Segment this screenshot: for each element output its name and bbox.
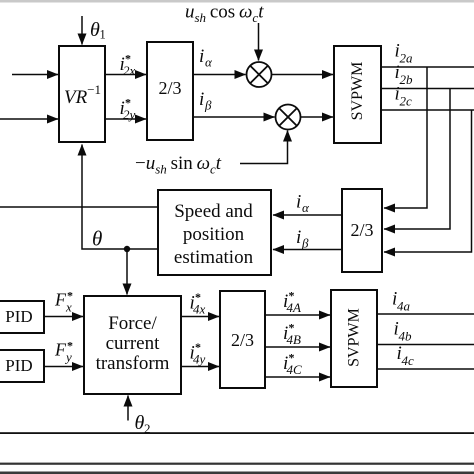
svg-text:current: current (106, 333, 161, 354)
wire i2y* (105, 118, 146, 120)
svg-text:x: x (65, 300, 72, 315)
svg-text:2/3: 2/3 (231, 330, 254, 350)
svg-text:2a: 2a (400, 51, 414, 66)
block 2/3 bottom (220, 291, 265, 388)
svg-text:2b: 2b (400, 72, 414, 87)
bottom page strip (0, 472, 474, 474)
svg-text:2/3: 2/3 (350, 220, 373, 240)
svg-text:i: i (199, 89, 204, 110)
label i_alpha feedback (296, 192, 310, 216)
label theta2 (135, 412, 151, 436)
wire i4y* (181, 366, 219, 368)
wire i2a (381, 66, 474, 68)
top page rule (0, 0, 474, 3)
svg-text:PID: PID (5, 356, 32, 375)
page rule below caption (0, 463, 474, 465)
svg-text:4b: 4b (399, 329, 413, 344)
wire theta2 up into force block (127, 396, 129, 421)
wire i4B* (265, 346, 330, 348)
wire i4a (377, 313, 474, 315)
svg-text:position: position (183, 224, 245, 245)
wire input 1 (12, 74, 58, 76)
svg-text:α: α (302, 200, 310, 215)
wire i_beta feedback (273, 249, 342, 251)
svg-text:1: 1 (100, 28, 106, 42)
block 2/3 feedback (342, 189, 382, 272)
wire M1 to SVPWM (272, 74, 334, 76)
wire feedback tap c (384, 110, 472, 252)
wire i4x* (181, 316, 219, 318)
svg-text:4y: 4y (193, 352, 206, 367)
wire feedback tap a (384, 67, 427, 208)
label i4b (394, 319, 413, 344)
label i2b (395, 62, 414, 87)
svg-text:β: β (204, 98, 212, 113)
label i4A* (283, 289, 301, 316)
block force current transform (84, 296, 181, 394)
block VR^-1 (59, 46, 105, 142)
label i_beta feedback (296, 227, 309, 251)
svg-text:β: β (301, 236, 309, 251)
svg-text:Force/: Force/ (108, 313, 157, 334)
svg-text:2y: 2y (123, 107, 136, 122)
label i4C* (283, 351, 302, 378)
label i2a (395, 41, 414, 66)
svg-text:i: i (199, 46, 204, 67)
svg-text:transform: transform (96, 353, 170, 374)
wire i_beta to M2 (193, 116, 275, 118)
wire i2b (381, 88, 474, 90)
svg-text:4x: 4x (193, 302, 206, 317)
svg-text:θ: θ (90, 19, 100, 41)
block SVPWM top (334, 46, 381, 143)
label i_alpha top (199, 46, 213, 70)
svg-text:θ: θ (92, 227, 102, 251)
svg-text:4a: 4a (397, 299, 411, 314)
label i4c (397, 343, 415, 368)
page rule above caption (0, 432, 474, 434)
wire i4b (377, 344, 474, 346)
wire feedback tap b (384, 89, 450, 230)
svg-text:estimation: estimation (174, 247, 254, 268)
block PID1 (0, 301, 44, 333)
wire i_alpha to M1 (193, 74, 246, 76)
label i4B* (283, 321, 301, 348)
wire -ush-sin to M2 (240, 131, 288, 164)
svg-text:4A: 4A (287, 300, 302, 315)
block 2/3 top (147, 42, 193, 140)
label Fx* (54, 289, 73, 315)
wire M2 to SVPWM (301, 116, 334, 118)
label i_beta top (199, 89, 212, 113)
svg-text:SVPWM: SVPWM (349, 62, 366, 121)
wire theta down to force block (126, 249, 128, 295)
wire Fx* (44, 316, 83, 318)
wire theta feedback to VR1 (82, 145, 158, 250)
svg-text:y: y (64, 350, 72, 365)
multiplier M1 (247, 62, 272, 87)
svg-text:i: i (296, 192, 301, 213)
block speed position estimation (158, 190, 271, 275)
label i4a (392, 289, 411, 314)
svg-text:2c: 2c (400, 94, 413, 109)
svg-text:4C: 4C (287, 362, 303, 377)
wire i2c (381, 109, 474, 111)
junction theta node (124, 246, 130, 252)
wire i_alpha feedback (273, 214, 342, 216)
label i4y* (190, 340, 206, 367)
svg-text:2x: 2x (123, 63, 136, 78)
wire i4C* (265, 376, 330, 378)
label theta1 (90, 19, 106, 42)
wire i4c (377, 368, 474, 370)
block SVPWM bottom (331, 290, 377, 387)
label i2y* (120, 96, 136, 123)
wire ush-cos down to M1 (258, 23, 260, 61)
svg-text:4B: 4B (287, 332, 302, 347)
wire speed output left (0, 206, 158, 208)
svg-text:Speed and: Speed and (174, 201, 253, 222)
svg-text:i: i (296, 227, 301, 248)
label i4x* (190, 290, 206, 317)
wire i4A* (265, 314, 330, 316)
block PID2 (0, 350, 44, 382)
label i2c (395, 84, 413, 109)
svg-text:θ: θ (135, 412, 145, 434)
svg-text:α: α (205, 55, 213, 70)
label Fy* (54, 339, 73, 365)
label i2x* (120, 52, 136, 79)
svg-text:4c: 4c (402, 353, 415, 368)
svg-text:−ush sin ωct: −ush sin ωct (135, 153, 222, 177)
multiplier M2 (276, 105, 301, 130)
svg-text:2/3: 2/3 (158, 78, 181, 98)
svg-text:PID: PID (5, 307, 32, 326)
wire input 2 (0, 118, 58, 120)
wire theta1 into VR1 (81, 16, 83, 45)
wire Fy* (44, 366, 83, 368)
wire i2x* (105, 74, 146, 76)
svg-text:ush cos ωct: ush cos ωct (185, 2, 264, 26)
svg-text:SVPWM: SVPWM (346, 308, 363, 367)
